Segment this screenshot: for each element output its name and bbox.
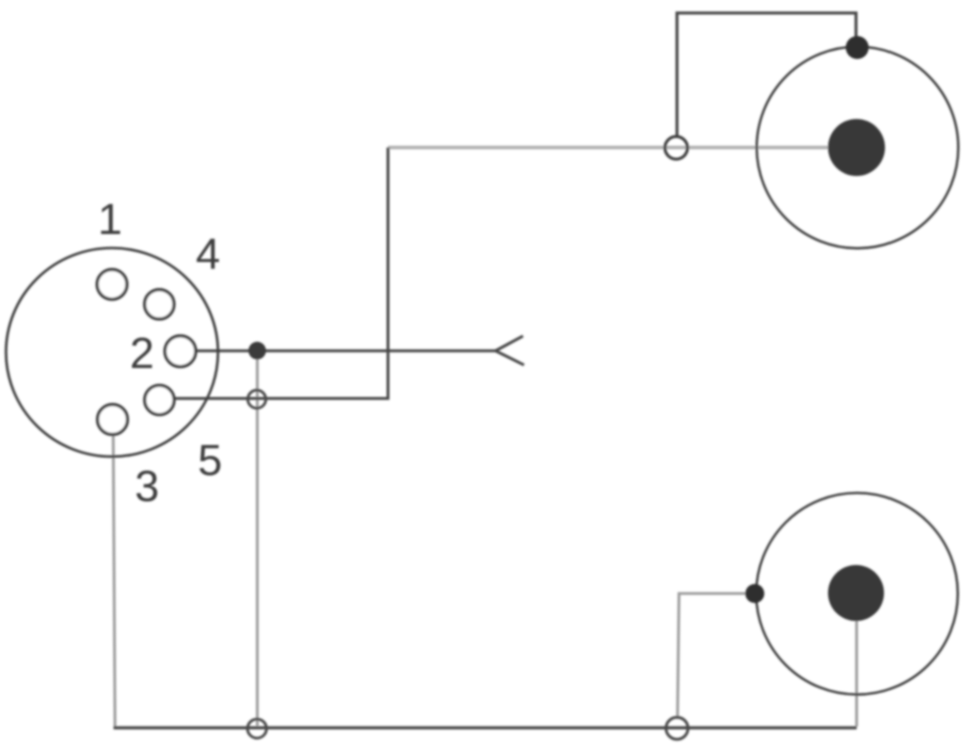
svg-text:1: 1 [98,195,122,244]
svg-text:5: 5 [198,436,222,485]
svg-text:2: 2 [130,329,154,378]
svg-text:3: 3 [135,462,159,511]
svg-text:4: 4 [196,230,220,279]
